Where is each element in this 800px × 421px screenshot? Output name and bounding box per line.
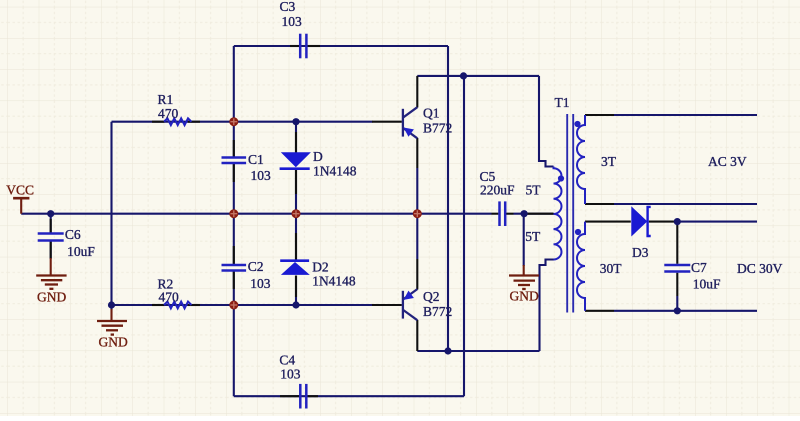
svg-text:D: D <box>313 149 323 164</box>
svg-text:D3: D3 <box>632 245 649 260</box>
svg-text:C2: C2 <box>248 259 264 274</box>
svg-text:103: 103 <box>250 276 271 291</box>
svg-text:Q2: Q2 <box>423 289 440 304</box>
svg-text:103: 103 <box>280 366 301 381</box>
svg-text:GND: GND <box>99 335 128 350</box>
svg-text:10uF: 10uF <box>67 244 95 259</box>
svg-text:1N4148: 1N4148 <box>312 274 356 289</box>
svg-text:C3: C3 <box>280 0 296 14</box>
svg-text:3T: 3T <box>601 154 617 169</box>
svg-text:C1: C1 <box>248 152 264 167</box>
svg-text:10uF: 10uF <box>693 277 721 292</box>
svg-text:AC 3V: AC 3V <box>708 154 747 169</box>
svg-text:VCC: VCC <box>6 183 34 198</box>
svg-text:C6: C6 <box>65 227 81 242</box>
svg-text:103: 103 <box>282 14 303 29</box>
svg-text:DC 30V: DC 30V <box>737 261 783 276</box>
svg-text:5T: 5T <box>526 183 542 198</box>
svg-text:GND: GND <box>37 289 66 304</box>
svg-text:5T: 5T <box>525 229 541 244</box>
svg-text:220uF: 220uF <box>480 183 515 198</box>
svg-text:470: 470 <box>158 106 179 121</box>
svg-text:C7: C7 <box>691 260 707 275</box>
svg-text:30T: 30T <box>600 261 623 276</box>
svg-text:D2: D2 <box>312 260 329 275</box>
svg-text:1N4148: 1N4148 <box>313 164 357 179</box>
svg-text:R1: R1 <box>158 92 174 107</box>
svg-text:T1: T1 <box>555 95 570 110</box>
svg-text:B772: B772 <box>423 121 452 136</box>
svg-text:GND: GND <box>510 288 539 303</box>
svg-text:470: 470 <box>159 290 180 305</box>
svg-text:B772: B772 <box>423 304 452 319</box>
svg-text:103: 103 <box>251 168 272 183</box>
svg-text:Q1: Q1 <box>423 106 440 121</box>
